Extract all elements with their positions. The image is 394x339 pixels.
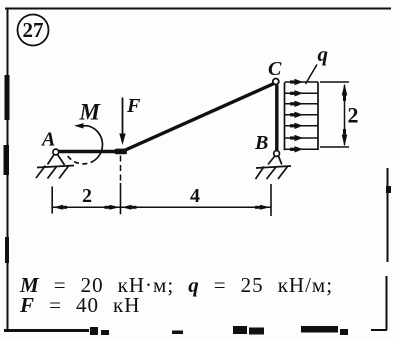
- support B ground: [256, 166, 291, 168]
- load arrow 1: [285, 81, 319, 83]
- frame left border thick spots: [5, 75, 10, 120]
- support A pin: [53, 149, 59, 155]
- support A ground: [37, 166, 74, 168]
- frame bottom-right corner mark: [371, 329, 387, 331]
- load arrow 6: [285, 137, 319, 139]
- force F arrow: [122, 98, 124, 137]
- svg-text:4: 4: [190, 185, 200, 207]
- moment M arc: [88, 126, 102, 160]
- svg-text:27: 27: [23, 18, 44, 42]
- distributed load q right edge: [317, 82, 319, 150]
- svg-text:B: B: [254, 132, 268, 154]
- svg-text:C: C: [268, 58, 282, 80]
- svg-text:2: 2: [82, 185, 92, 207]
- task number circle 27: [18, 15, 49, 46]
- load arrow 5: [285, 125, 319, 127]
- support B pin: [274, 151, 280, 157]
- hinge C circle: [273, 79, 279, 85]
- right dimension line 2: [344, 85, 346, 145]
- member CB vertical bar: [275, 85, 278, 150]
- frame right border: [387, 168, 388, 330]
- caption text: [20, 275, 333, 315]
- load arrow 4: [285, 114, 319, 116]
- bottom dimension line: [52, 206, 271, 208]
- svg-text:2: 2: [348, 103, 359, 128]
- support B hatching: [256, 167, 288, 180]
- right dimension extension lines: [320, 82, 349, 147]
- load q leader line: [306, 65, 318, 85]
- support A hatching: [36, 166, 69, 179]
- projection dashed line below joint: [120, 156, 122, 182]
- scan artifacts bottom band: [4, 329, 89, 332]
- svg-text:M: M: [79, 100, 102, 125]
- frame right border blob: [386, 186, 391, 193]
- svg-text:F: F: [126, 95, 141, 117]
- member JC inclined bar: [121, 84, 274, 153]
- member AJ horizontal beam: [56, 150, 124, 154]
- moment M arrow: [81, 125, 88, 127]
- svg-text:q: q: [318, 42, 329, 66]
- bottom dimension ticks: [51, 187, 53, 214]
- load arrow 2: [285, 92, 319, 94]
- svg-text:A: A: [40, 129, 55, 151]
- joint blob at junction: [115, 149, 128, 155]
- frame left border: [7, 8, 9, 331]
- load arrow 7: [285, 148, 319, 150]
- bottom dimension arrows: [53, 205, 63, 210]
- frame top border: [5, 8, 391, 10]
- distributed load q left edge: [284, 83, 286, 151]
- load arrow 3: [285, 103, 319, 105]
